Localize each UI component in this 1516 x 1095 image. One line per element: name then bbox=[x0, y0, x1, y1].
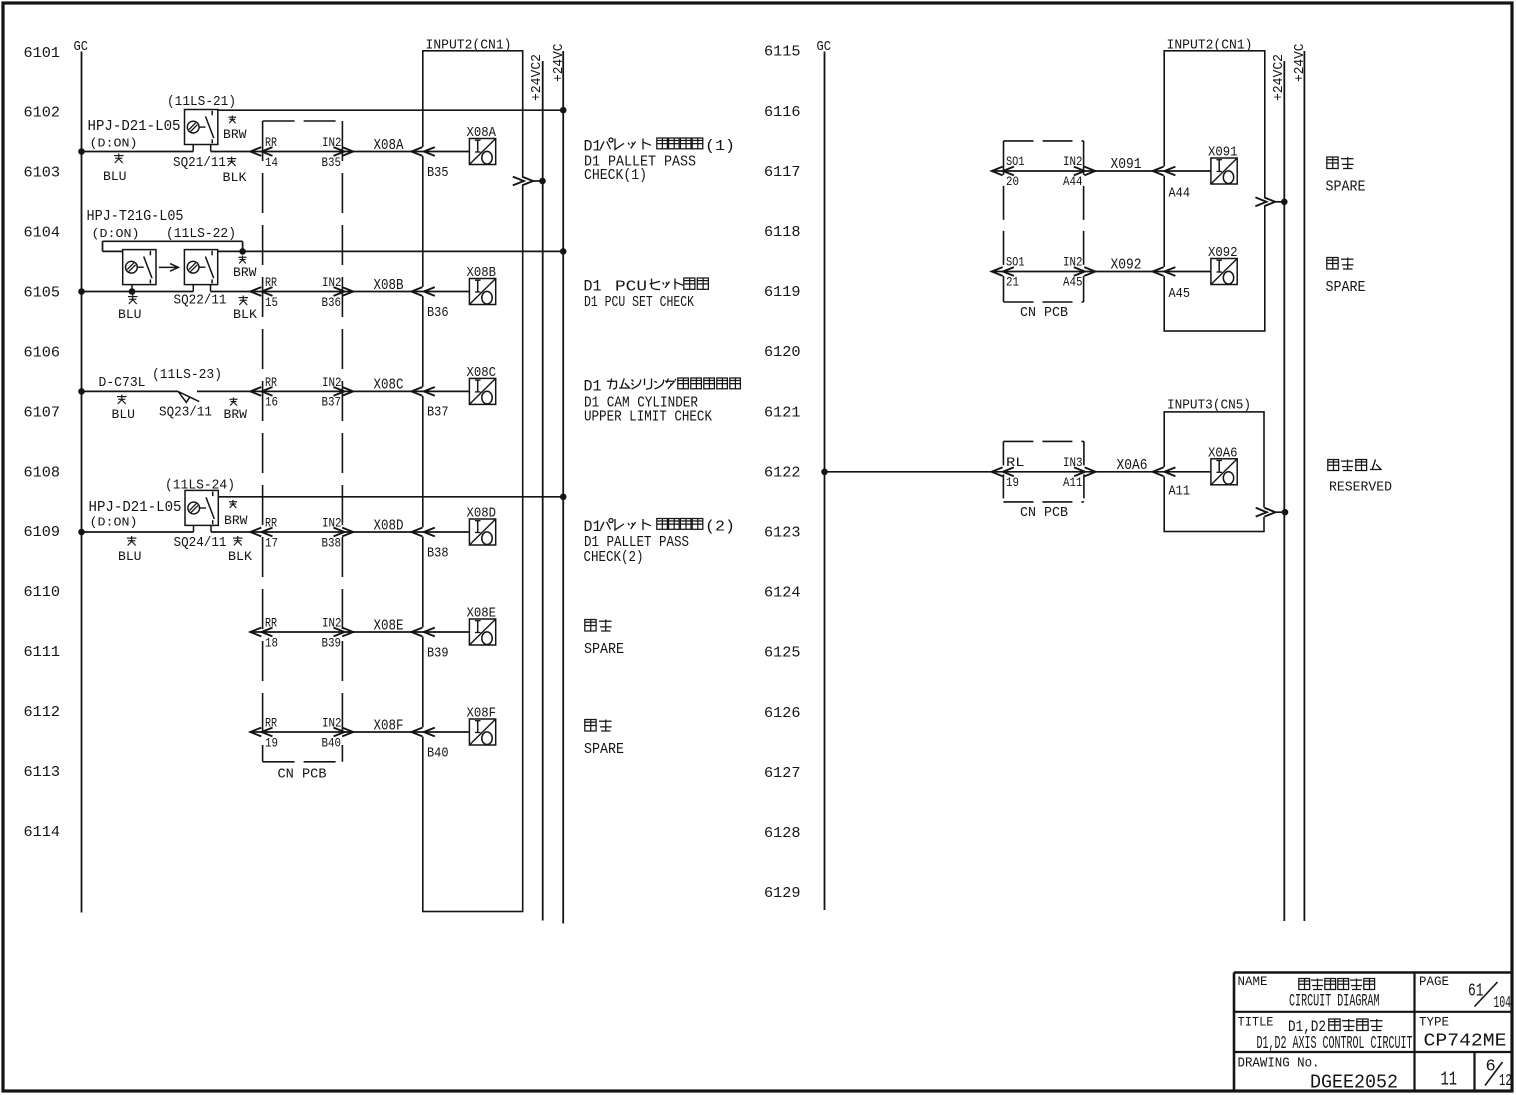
svg-text:18: 18 bbox=[265, 636, 278, 650]
svg-text:CP742ME: CP742ME bbox=[1424, 1031, 1507, 1051]
chevrons CN PCB left edge row 16 bbox=[250, 387, 261, 396]
label blue kanji SQ24 bbox=[127, 536, 136, 546]
svg-text:X08B: X08B bbox=[374, 278, 404, 294]
pin RL/19 and IN3/A11 right connector row bbox=[1006, 456, 1083, 490]
wire GC vertical bus right bbox=[824, 52, 826, 911]
svg-text:X08A: X08A bbox=[374, 138, 404, 154]
sensor SQ22 box2 legs bbox=[192, 285, 194, 292]
I/O module X092 bbox=[1211, 259, 1237, 285]
svg-text:IN2: IN2 bbox=[322, 376, 342, 390]
wire bracket over SQ22 bbox=[103, 241, 243, 251]
I/O module X08A bbox=[469, 139, 495, 165]
junction GC row 6109 bbox=[78, 529, 85, 536]
chevrons right CN PCB right edge 20 bbox=[1074, 167, 1085, 176]
wire CN PCB pin 18 to X08E bbox=[250, 631, 469, 633]
svg-text:HPJ-D21-L05: HPJ-D21-L05 bbox=[88, 119, 181, 135]
svg-text:(D:ON): (D:ON) bbox=[90, 515, 138, 529]
svg-text:SPARE: SPARE bbox=[1326, 279, 1366, 296]
label brown kanji SQ21 bbox=[229, 116, 237, 124]
wire GC to SQ24 BLU bbox=[82, 531, 194, 533]
svg-text:BLK: BLK bbox=[233, 308, 258, 322]
svg-text:TYPE: TYPE bbox=[1419, 1014, 1449, 1029]
svg-text:SO1: SO1 bbox=[1006, 256, 1025, 270]
junction +24VC2 lower tap bbox=[1282, 509, 1289, 516]
svg-text:(D:ON): (D:ON) bbox=[90, 137, 138, 151]
title block outline bbox=[1234, 973, 1513, 1092]
svg-text:17: 17 bbox=[265, 536, 278, 550]
svg-text:CN PCB: CN PCB bbox=[1020, 305, 1068, 321]
svg-text:6129: 6129 bbox=[764, 884, 801, 902]
wire +24VC vertical bus right bbox=[1303, 51, 1305, 921]
I/O module X08D bbox=[469, 519, 495, 545]
wire SQ21 BRW to +24VC row 6102 bbox=[218, 109, 563, 111]
svg-text:CHECK(2): CHECK(2) bbox=[584, 550, 644, 566]
wire SQ24 BLK to CN PCB pin 17 bbox=[211, 531, 469, 533]
sensor SQ22 box1 HPJ-T21G bbox=[123, 250, 156, 285]
sensor SQ21 legs bbox=[192, 145, 194, 152]
wire X091 row bbox=[992, 170, 1211, 172]
svg-text:+24VC: +24VC bbox=[551, 44, 567, 83]
svg-text:6111: 6111 bbox=[24, 643, 61, 661]
svg-text:NAME: NAME bbox=[1238, 974, 1268, 989]
I/O module X091 bbox=[1211, 158, 1237, 184]
chevrons right CN PCB right edge 19 bbox=[1074, 467, 1085, 476]
svg-text:X08C: X08C bbox=[467, 366, 497, 381]
junction SQ22 box1 leg bbox=[129, 288, 136, 295]
junction +24VC row 6102 bbox=[560, 107, 567, 114]
svg-text:CN PCB: CN PCB bbox=[278, 766, 327, 782]
label blue kanji SQ21 bbox=[114, 154, 124, 164]
junction +24VC2 right tap bbox=[1281, 199, 1288, 206]
wire GC to SQ21 BLU bbox=[82, 151, 194, 153]
wire GC to SQ22 BLU bbox=[82, 291, 194, 293]
svg-text:B40: B40 bbox=[322, 736, 342, 750]
desc spare kanji X091 bbox=[1327, 157, 1338, 169]
svg-text:X08C: X08C bbox=[374, 378, 404, 394]
svg-text:6110: 6110 bbox=[24, 583, 61, 601]
sensor SQ24 legs bbox=[193, 525, 195, 532]
svg-text:B37: B37 bbox=[322, 396, 342, 410]
connector CN PCB left dashed outline bbox=[263, 121, 343, 762]
chevrons CN PCB right edge row 14 bbox=[334, 147, 345, 156]
connector block INPUT2(CN1) left bbox=[421, 38, 525, 912]
svg-text:(11LS-21): (11LS-21) bbox=[167, 95, 236, 110]
svg-text:PAGE: PAGE bbox=[1419, 974, 1449, 989]
svg-text:SQ24/11: SQ24/11 bbox=[174, 535, 227, 551]
chevrons CN PCB right edge row 18 bbox=[334, 628, 345, 637]
chevrons INPUT2 edge row 18 bbox=[411, 628, 422, 637]
wire SQ24 BRW to +24VC bbox=[218, 496, 563, 498]
svg-text:BRW: BRW bbox=[223, 128, 247, 142]
svg-text:HPJ-D21-L05: HPJ-D21-L05 bbox=[89, 500, 182, 516]
svg-text:UPPER LIMIT CHECK: UPPER LIMIT CHECK bbox=[584, 410, 712, 426]
svg-text:D1 PCU SET CHECK: D1 PCU SET CHECK bbox=[584, 295, 694, 311]
chevrons CN PCB right edge row 17 bbox=[334, 528, 345, 537]
junction GC row 6107 bbox=[78, 388, 85, 395]
svg-text:6113: 6113 bbox=[24, 763, 61, 781]
svg-text:11: 11 bbox=[1441, 1069, 1458, 1091]
svg-text:RL: RL bbox=[1006, 456, 1025, 470]
chevrons INPUT box edge X091 bbox=[1153, 167, 1164, 176]
svg-text:X092: X092 bbox=[1208, 246, 1238, 261]
chevrons CN PCB right edge row 19 bbox=[334, 728, 345, 737]
svg-text:6107: 6107 bbox=[24, 403, 61, 421]
I/O module X08E bbox=[469, 619, 495, 645]
I/O module X08F bbox=[469, 719, 495, 745]
svg-text:X08E: X08E bbox=[467, 607, 497, 622]
svg-text:BLU: BLU bbox=[118, 550, 142, 564]
svg-text:SO1: SO1 bbox=[1006, 155, 1025, 169]
connector CN PCB right lower dashed outline bbox=[1003, 441, 1084, 502]
svg-text:15: 15 bbox=[265, 296, 278, 310]
chevrons INPUT2 edge row 17 bbox=[411, 528, 422, 537]
chevrons INPUT box edge X092 bbox=[1153, 267, 1164, 276]
I/O module X0A6 bbox=[1211, 459, 1237, 485]
svg-text:6103: 6103 bbox=[24, 164, 61, 182]
pin RR/14 and IN2/B35 connector row bbox=[265, 136, 342, 170]
svg-text:X0A6: X0A6 bbox=[1117, 458, 1148, 474]
svg-text:12: 12 bbox=[1499, 1072, 1512, 1091]
svg-text:IN2: IN2 bbox=[1063, 155, 1083, 169]
svg-text:IN2: IN2 bbox=[322, 717, 342, 731]
svg-text:6106: 6106 bbox=[24, 343, 61, 361]
svg-text:IN2: IN2 bbox=[322, 276, 342, 290]
svg-text:6104: 6104 bbox=[24, 224, 61, 242]
label black kanji SQ24 bbox=[233, 536, 243, 546]
svg-text:HPJ-T21G-L05: HPJ-T21G-L05 bbox=[87, 209, 184, 225]
svg-text:6127: 6127 bbox=[764, 764, 801, 782]
svg-text:CN PCB: CN PCB bbox=[1020, 505, 1068, 521]
pin SO1/20 and IN2/A44 right connector row bbox=[1006, 155, 1083, 189]
wire CN PCB pin 19 to X08F bbox=[250, 731, 469, 733]
svg-text:PCU: PCU bbox=[615, 279, 647, 296]
svg-text:SQ21/11: SQ21/11 bbox=[173, 155, 226, 171]
svg-text:BLU: BLU bbox=[103, 170, 127, 184]
svg-text:(1): (1) bbox=[705, 139, 735, 155]
svg-text:B39: B39 bbox=[322, 636, 342, 650]
junction bracket on BRW wire bbox=[239, 248, 246, 255]
svg-text:6121: 6121 bbox=[764, 403, 801, 421]
wire INPUT2 to +24VC2 spare tap row 6103 bbox=[533, 180, 543, 182]
svg-text:B36: B36 bbox=[427, 305, 449, 321]
svg-text:IN2: IN2 bbox=[322, 517, 342, 531]
switch SQ23/11 reed contact bbox=[178, 391, 199, 402]
sensor SQ21/11 HPJ-D21-L05 proximity switch bbox=[185, 110, 218, 145]
svg-text:6126: 6126 bbox=[764, 704, 801, 722]
chevrons CN PCB left edge row 19 bbox=[250, 728, 261, 737]
svg-text:19: 19 bbox=[265, 736, 278, 750]
desc reserved kanji X0A6 bbox=[1328, 460, 1339, 471]
svg-text:X08D: X08D bbox=[374, 518, 404, 534]
connector block INPUT2(CN1) right bbox=[1162, 38, 1267, 331]
pin SO1/21 and IN2/A45 right connector row bbox=[1006, 256, 1083, 290]
svg-text:6114: 6114 bbox=[24, 823, 61, 841]
svg-text:BLK: BLK bbox=[228, 550, 253, 564]
svg-text:(2): (2) bbox=[705, 520, 735, 536]
svg-text:CIRCUIT DIAGRAM: CIRCUIT DIAGRAM bbox=[1289, 992, 1380, 1012]
wire +24VC2 vertical bus left bbox=[542, 61, 544, 921]
svg-text:B35: B35 bbox=[322, 156, 342, 170]
chevrons INPUT box edge X0A6 bbox=[1153, 467, 1164, 476]
svg-text:16: 16 bbox=[265, 396, 278, 410]
connector block INPUT3(CN5) bbox=[1162, 397, 1266, 531]
svg-text:B38: B38 bbox=[322, 536, 342, 550]
svg-text:B36: B36 bbox=[322, 296, 342, 310]
svg-text:BRW: BRW bbox=[224, 408, 248, 422]
svg-text:D1,D2 AXIS CONTROL CIRCUIT: D1,D2 AXIS CONTROL CIRCUIT bbox=[1257, 1034, 1413, 1054]
chevrons right CN PCB right edge 21 bbox=[1074, 267, 1085, 276]
label brown kanji SQ22 bbox=[239, 256, 247, 264]
svg-text:INPUT3(CN5): INPUT3(CN5) bbox=[1167, 397, 1251, 413]
svg-text:6124: 6124 bbox=[764, 584, 801, 602]
desc spare kanji X092 bbox=[1327, 258, 1338, 270]
svg-text:6123: 6123 bbox=[764, 524, 801, 542]
svg-text:14: 14 bbox=[265, 156, 278, 170]
svg-text:BRW: BRW bbox=[233, 266, 257, 280]
svg-text:B37: B37 bbox=[427, 405, 449, 421]
wire X092 row bbox=[992, 271, 1211, 273]
svg-text:D1: D1 bbox=[584, 378, 602, 396]
arrow between SQ22 boxes bbox=[159, 264, 179, 272]
svg-text:+24VC: +24VC bbox=[1292, 44, 1308, 83]
svg-text:6125: 6125 bbox=[764, 644, 801, 662]
svg-text:20: 20 bbox=[1006, 175, 1019, 189]
chevrons spare tap pointing right bbox=[513, 177, 524, 186]
svg-text:(D:ON): (D:ON) bbox=[92, 227, 140, 241]
pin RR/18 and IN2/B39 connector row bbox=[265, 617, 342, 651]
svg-text:6118: 6118 bbox=[764, 223, 801, 241]
svg-text:SPARE: SPARE bbox=[1326, 178, 1366, 195]
svg-text:D1: D1 bbox=[584, 138, 602, 156]
chevrons right CN PCB left edge 19 bbox=[992, 467, 1003, 476]
connector CN PCB right upper dashed outline bbox=[1004, 141, 1084, 302]
chevrons CN PCB right edge row 16 bbox=[334, 387, 345, 396]
svg-text:21: 21 bbox=[1006, 276, 1019, 290]
svg-text:DGEE2052: DGEE2052 bbox=[1310, 1072, 1398, 1094]
sensor SQ24/11 HPJ-D21-L05 bbox=[185, 490, 218, 525]
svg-text:19: 19 bbox=[1006, 476, 1019, 490]
label brown kanji SQ23 bbox=[230, 398, 238, 406]
wire GC to X0A6 row 6122 bbox=[825, 471, 1212, 473]
svg-text:6109: 6109 bbox=[24, 523, 61, 541]
pin RR/15 and IN2/B36 connector row bbox=[265, 276, 342, 310]
wire INPUT2 right to +24VC2 tap bbox=[1275, 201, 1284, 203]
junction GC row 6105 bbox=[78, 288, 85, 295]
svg-text:6108: 6108 bbox=[24, 463, 61, 481]
svg-text:B39: B39 bbox=[427, 645, 449, 661]
svg-text:X091: X091 bbox=[1208, 146, 1238, 161]
svg-text:IN2: IN2 bbox=[322, 136, 342, 150]
chevrons INPUT3 tap bbox=[1256, 508, 1267, 517]
svg-text:6102: 6102 bbox=[24, 104, 61, 122]
svg-text:6122: 6122 bbox=[764, 463, 801, 481]
svg-text:D1: D1 bbox=[584, 518, 602, 536]
chevrons CN PCB left edge row 15 bbox=[250, 287, 261, 296]
svg-text:BLU: BLU bbox=[112, 408, 136, 422]
junction +24VC row 6104 bbox=[560, 248, 567, 255]
chevrons right CN PCB left edge 20 bbox=[992, 167, 1003, 176]
wire +24VC2 vertical bus right bbox=[1283, 61, 1285, 921]
chevrons CN PCB right edge row 15 bbox=[334, 287, 345, 296]
wire GC vertical bus left bbox=[81, 52, 83, 913]
svg-text:SPARE: SPARE bbox=[584, 741, 624, 758]
junction +24VC row 6108 bbox=[560, 494, 567, 501]
svg-text:TITLE: TITLE bbox=[1238, 1014, 1274, 1029]
label black kanji SQ21 bbox=[227, 157, 237, 167]
svg-text:6120: 6120 bbox=[764, 343, 801, 361]
svg-text:IN3: IN3 bbox=[1063, 456, 1083, 470]
svg-text:X08B: X08B bbox=[467, 266, 497, 281]
svg-text:X08A: X08A bbox=[467, 126, 497, 141]
svg-text:X08F: X08F bbox=[467, 707, 497, 722]
svg-text:6112: 6112 bbox=[24, 703, 61, 721]
desc spare kanji row 6111 bbox=[585, 620, 596, 632]
junction +24VC2 tap bbox=[539, 178, 546, 185]
svg-text:D1 PALLET PASS: D1 PALLET PASS bbox=[584, 535, 689, 551]
svg-text:6117: 6117 bbox=[764, 163, 801, 181]
svg-text:A45: A45 bbox=[1063, 276, 1083, 290]
svg-text:X091: X091 bbox=[1111, 157, 1142, 173]
svg-text:A45: A45 bbox=[1169, 286, 1191, 302]
svg-text:X08D: X08D bbox=[467, 507, 497, 522]
label brown kanji SQ24 bbox=[229, 500, 237, 508]
wire SQ21 BLK to CN PCB pin 14 bbox=[211, 151, 470, 153]
wire SQ22 BRW to +24VC row 6104 bbox=[218, 250, 564, 252]
svg-text:6119: 6119 bbox=[764, 283, 801, 301]
svg-text:6116: 6116 bbox=[764, 103, 801, 121]
svg-text:B35: B35 bbox=[427, 165, 449, 181]
svg-text:104: 104 bbox=[1494, 993, 1512, 1012]
chevrons INPUT2 edge row 15 bbox=[411, 287, 422, 296]
svg-text:6105: 6105 bbox=[24, 284, 61, 302]
svg-text:D1: D1 bbox=[584, 278, 602, 296]
title kanji circuit diagram bbox=[1299, 979, 1310, 990]
chevrons INPUT2 edge row 14 bbox=[411, 147, 422, 156]
svg-text:SQ22/11: SQ22/11 bbox=[174, 293, 227, 309]
chevrons CN PCB left edge row 17 bbox=[250, 528, 261, 537]
sensor SQ22 box2 bbox=[184, 250, 217, 285]
svg-text:X08E: X08E bbox=[374, 618, 404, 634]
wire GC to SQ23 bbox=[82, 390, 179, 392]
chevrons spare tap right half bbox=[1255, 197, 1266, 206]
junction GC row 6103 bbox=[78, 148, 85, 155]
chevrons CN PCB left edge row 14 bbox=[250, 147, 261, 156]
chevrons INPUT2 edge row 16 bbox=[411, 387, 422, 396]
svg-text:IN2: IN2 bbox=[322, 617, 342, 631]
svg-text:B40: B40 bbox=[427, 745, 449, 761]
chevrons INPUT2 edge row 19 bbox=[411, 728, 422, 737]
svg-text:(11LS-23): (11LS-23) bbox=[152, 368, 222, 383]
svg-text:SPARE: SPARE bbox=[584, 641, 624, 658]
svg-text:6115: 6115 bbox=[764, 43, 801, 61]
sheet 6/12 bbox=[1485, 1058, 1512, 1092]
svg-text:A11: A11 bbox=[1169, 483, 1191, 499]
svg-text:6128: 6128 bbox=[764, 824, 801, 842]
svg-text:X092: X092 bbox=[1111, 258, 1142, 274]
svg-text:SQ23/11: SQ23/11 bbox=[159, 405, 212, 421]
sensor SQ22 box1 leg bbox=[131, 285, 133, 292]
wire SQ22 BLK to CN PCB pin 15 bbox=[211, 291, 470, 293]
svg-text:RESERVED: RESERVED bbox=[1329, 480, 1392, 496]
I/O module X08C bbox=[469, 378, 495, 404]
pin RR/17 and IN2/B38 connector row bbox=[265, 517, 342, 551]
label blue kanji SQ23 bbox=[117, 395, 127, 405]
svg-text:A44: A44 bbox=[1063, 175, 1083, 189]
svg-text:X08F: X08F bbox=[374, 718, 404, 734]
svg-text:B38: B38 bbox=[427, 545, 449, 561]
desc spare kanji row 6112 bbox=[585, 720, 596, 732]
svg-text:DRAWING No.: DRAWING No. bbox=[1238, 1057, 1320, 1072]
svg-text:D-C73L: D-C73L bbox=[99, 375, 146, 391]
I/O module X08B bbox=[469, 279, 495, 305]
wire +24VC vertical bus left bbox=[562, 51, 564, 924]
label blue kanji SQ22 bbox=[128, 295, 138, 305]
svg-text:IN2: IN2 bbox=[1063, 256, 1083, 270]
junction GC row 6122 bbox=[821, 469, 828, 476]
svg-text:BLU: BLU bbox=[118, 308, 142, 322]
svg-text:(11LS-22): (11LS-22) bbox=[166, 227, 236, 242]
pin RR/16 and IN2/B37 connector row bbox=[265, 376, 342, 410]
svg-text:BRW: BRW bbox=[224, 514, 248, 528]
svg-text:A44: A44 bbox=[1169, 185, 1191, 201]
svg-text:A11: A11 bbox=[1063, 476, 1083, 490]
wire INPUT3 to +24VC2 tap bbox=[1276, 511, 1285, 513]
svg-text:BLK: BLK bbox=[223, 171, 248, 185]
pin RR/19 and IN2/B40 connector row bbox=[265, 717, 342, 751]
svg-text:X0A6: X0A6 bbox=[1208, 446, 1238, 461]
wire SQ23 BRW to CN PCB pin 16 bbox=[197, 390, 469, 392]
label black kanji SQ22 bbox=[239, 296, 249, 306]
page number 61/104 bbox=[1468, 982, 1511, 1013]
chevrons right CN PCB left edge 21 bbox=[992, 267, 1003, 276]
svg-text:CHECK(1): CHECK(1) bbox=[584, 168, 647, 184]
svg-text:6101: 6101 bbox=[24, 44, 61, 62]
chevrons CN PCB left edge row 18 bbox=[250, 628, 261, 637]
